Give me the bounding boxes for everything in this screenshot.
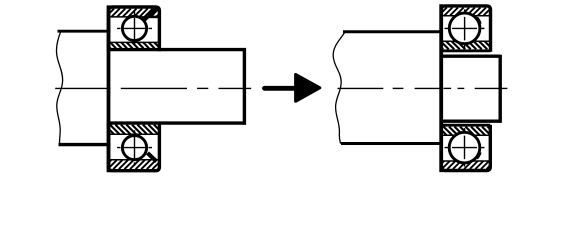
- bearing B2 hatch blob (dark smudge lower right): [148, 153, 157, 162]
- bearing B4 outline (right figure, bottom): [441, 125, 490, 171]
- ball B3 center cross: [445, 9, 485, 48]
- arrow head: [296, 75, 320, 102]
- bearing B3 outer-ring hatch (right figure, top): [441, 8, 490, 16]
- shaft shoulder face / bearing left edge vertical (left figure): [107, 5, 111, 172]
- bearing B4 inner-ring hatch (right figure, bottom): [441, 127, 490, 136]
- bearing B3 race boundary lines: [441, 16, 490, 41]
- shaft break wavy line (right figure): [333, 32, 345, 143]
- shaft large-diameter top line (right figure): [343, 30, 443, 33]
- bearing B3 bore line: [441, 49, 490, 52]
- shaft break wavy line (left figure): [56, 31, 62, 145]
- shaft seat top line (left figure): [108, 48, 246, 51]
- bearing B1 outline (left figure, top): [109, 7, 160, 51]
- bearing B4 outer-ring hatch (right figure, bottom): [441, 161, 490, 169]
- shaft nose bottom line (right figure): [440, 119, 501, 122]
- bearing B3 hatch blob (junction thickening upper right): [477, 18, 480, 24]
- ball of bearing B1: [122, 16, 146, 40]
- bearing B2 outline (left figure, bottom): [109, 123, 160, 171]
- shaft large-diameter bottom line (right figure): [341, 142, 443, 145]
- shaft nose top line (right figure): [440, 55, 501, 58]
- bearing B1 outer-ring hatch (left figure, top): [109, 9, 160, 17]
- bearing B4 race boundary lines: [441, 135, 490, 161]
- bearing B4 hatch blob (junction thickening lower right): [477, 152, 480, 158]
- shaft seat bottom line (left figure): [108, 121, 246, 124]
- centerline (left figure): [55, 87, 251, 89]
- ball of bearing B4: [449, 132, 480, 163]
- shaft large-diameter top line (left figure): [58, 30, 111, 33]
- centerline (right figure): [338, 87, 508, 89]
- ball of bearing B3: [449, 13, 480, 44]
- bearing B2 inner-ring hatch (left figure, bottom): [109, 125, 160, 135]
- shaft nose right end face (right figure): [499, 55, 502, 123]
- shaft right end face (left figure): [243, 48, 246, 125]
- bearing B1 hatch blob (dark smudge upper right): [144, 8, 159, 21]
- bearing B3 inner-ring hatch (right figure, top): [441, 41, 490, 49]
- ball of bearing B2: [122, 136, 146, 160]
- bearing B2 race boundary lines: [109, 134, 160, 160]
- ball B2 center cross: [117, 130, 152, 166]
- ball B1 center cross: [117, 12, 152, 46]
- bearing B1 inner-ring hatch (left figure, top): [109, 42, 160, 48]
- arrow tail: [265, 86, 300, 91]
- bearing B3 outline (right figure, top): [441, 6, 490, 52]
- shaft shoulder face / bearing left edge vertical (right figure): [439, 4, 443, 172]
- shaft large-diameter bottom line (left figure): [59, 143, 111, 146]
- bearing B4 bore line: [441, 124, 490, 127]
- bearing B1 race boundary lines: [109, 17, 160, 43]
- bearing B2 outer-ring hatch (left figure, bottom): [109, 160, 160, 170]
- ball B4 center cross: [445, 128, 485, 167]
